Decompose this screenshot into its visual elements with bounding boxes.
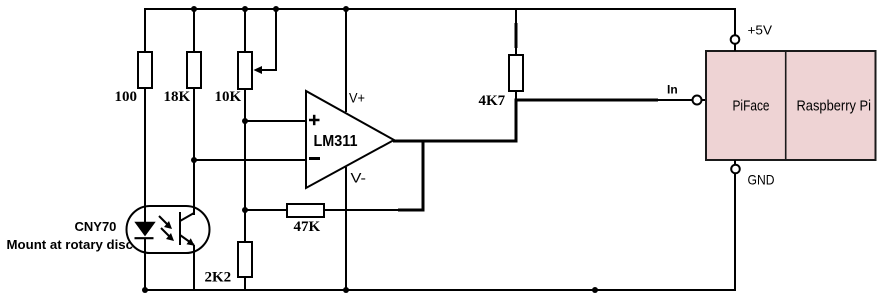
node junction top rail at V+ (343, 6, 349, 12)
node +5V terminal circle (731, 35, 740, 44)
svg-text:GND: GND (748, 172, 775, 188)
light arrows of CNY70 (159, 216, 174, 241)
transistor phototransistor of CNY70 (180, 212, 195, 290)
node junction top rail at 10K (242, 6, 248, 12)
wire In terminal to PiFace (702, 99, 707, 101)
svg-text:100: 100 (115, 89, 138, 105)
svg-text:V-: V- (351, 170, 367, 186)
svg-text:10K: 10K (215, 89, 242, 105)
wire GND terminal from PiFace (734, 160, 736, 165)
node junction bottom rail right (592, 287, 598, 293)
wire In signal thick (515, 99, 659, 102)
wire inverting input (194, 159, 306, 161)
wire potentiometer wiper (254, 9, 277, 74)
svg-text:18K: 18K (164, 89, 191, 105)
svg-text:CNY70: CNY70 (75, 219, 117, 234)
svg-text:4K7: 4K7 (479, 93, 506, 109)
op-amp U1 LM311 (306, 91, 394, 188)
wire In signal thin (658, 99, 692, 101)
node junction - input tap (191, 157, 197, 163)
optocoupler CNY70 body (127, 206, 210, 253)
svg-text:Mount at rotary disc: Mount at rotary disc (7, 237, 134, 252)
wire bottom ground rail (145, 173, 735, 290)
node junction 47K left (242, 207, 248, 213)
node junction bottom rail at V- (343, 287, 349, 293)
svg-text:PiFace: PiFace (733, 98, 770, 115)
node GND terminal circle (731, 165, 740, 174)
svg-text:V+: V+ (349, 90, 365, 106)
wire +5V terminal to PiFace (734, 44, 736, 51)
svg-text:2K2: 2K2 (205, 270, 232, 286)
wire V+ pin (345, 9, 347, 112)
resistor R 18K (187, 9, 201, 215)
node junction + input tap (242, 118, 248, 124)
resistor R 4K7 (509, 9, 523, 100)
svg-text:In: In (667, 83, 678, 97)
wire op-amp output thick (393, 99, 518, 212)
svg-text:47K: 47K (294, 219, 321, 235)
svg-text:+5V: +5V (748, 22, 773, 37)
block divider PiFace / Raspberry Pi (785, 52, 787, 159)
wire noninverting input (245, 120, 306, 122)
node junction top rail at 18K (191, 6, 197, 12)
resistor R 2K2 (238, 242, 252, 290)
resistor R 47K (245, 204, 398, 217)
wire top supply rail (145, 9, 735, 52)
svg-text:Raspberry Pi: Raspberry Pi (797, 98, 872, 115)
wire V- pin (345, 167, 347, 290)
node In terminal circle (693, 96, 702, 105)
block PiFace (706, 51, 876, 160)
diode LED of CNY70 (135, 222, 155, 290)
potentiometer R 10K (238, 9, 252, 242)
node junction bottom rail at LED cathode (142, 287, 148, 293)
resistor R 100 (138, 52, 152, 223)
svg-text:LM311: LM311 (314, 133, 358, 150)
node junction top rail at wiper (273, 6, 279, 12)
